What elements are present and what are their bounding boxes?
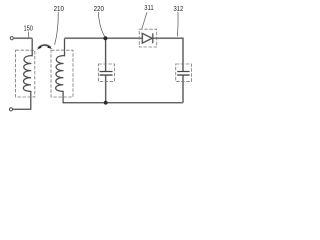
- svg-text:150: 150: [24, 23, 33, 32]
- svg-text:312: 312: [174, 4, 184, 13]
- svg-text:311: 311: [144, 3, 153, 12]
- svg-text:210: 210: [54, 4, 64, 13]
- svg-text:220: 220: [94, 4, 104, 13]
